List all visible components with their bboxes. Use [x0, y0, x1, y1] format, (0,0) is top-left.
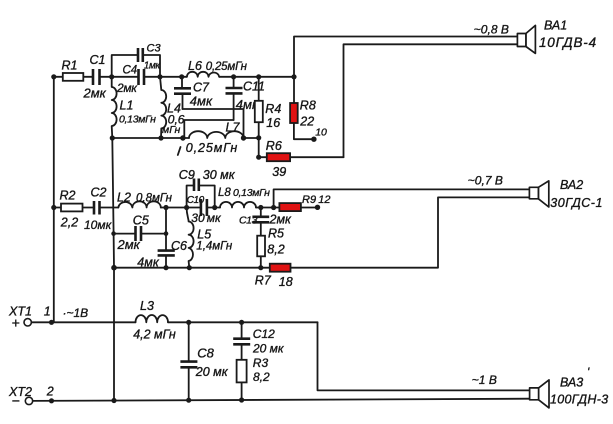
svg-text:L2: L2 [117, 190, 131, 204]
svg-text:C10: C10 [187, 195, 205, 206]
svg-text:C13: C13 [239, 214, 258, 226]
capacitor C6 [137, 239, 187, 270]
svg-text:C3: C3 [147, 43, 162, 55]
svg-text:R8: R8 [300, 98, 316, 112]
svg-text:R2: R2 [60, 188, 76, 202]
node R6 left [256, 155, 261, 160]
wire row1 bottom line [112, 137, 258, 139]
svg-text:R4: R4 [265, 102, 281, 116]
svg-text:C8: C8 [197, 345, 214, 360]
capacitor C4 [116, 65, 144, 95]
wire bottom bus [33, 399, 530, 401]
svg-text:18: 18 [279, 275, 293, 289]
node R8 top [291, 74, 296, 79]
node XT1 junction [49, 320, 54, 325]
svg-text:L1: L1 [120, 99, 134, 113]
svg-text:C5: C5 [133, 213, 149, 227]
svg-text:R9: R9 [302, 194, 316, 206]
svg-text:ВА2: ВА2 [560, 178, 583, 192]
capacitor C12 [233, 322, 285, 360]
node common bus [111, 398, 116, 403]
node L1 bottom [110, 135, 115, 140]
node row1 left [51, 74, 56, 79]
svg-text:39: 39 [272, 165, 286, 179]
capacitor C9 [179, 168, 236, 191]
svg-text:L5: L5 [197, 227, 211, 241]
terminal XT1 [8, 304, 88, 330]
inductor L6 [187, 59, 248, 77]
wire C7 to L7 right [183, 109, 244, 138]
capacitor C1 [83, 53, 107, 101]
svg-text:12: 12 [318, 194, 330, 206]
svg-text:20 мк: 20 мк [252, 341, 285, 355]
node L4 bottom [158, 135, 163, 140]
svg-text:1: 1 [44, 304, 51, 318]
svg-text:C11: C11 [243, 79, 265, 93]
svg-text:~1 В: ~1 В [472, 373, 497, 387]
speaker BA1 [517, 18, 596, 53]
svg-text:ВА3: ВА3 [560, 376, 583, 390]
node R4 top [256, 74, 261, 79]
svg-text:10мк: 10мк [84, 218, 113, 232]
wire row2 bottom line [114, 197, 529, 267]
capacitor C8 [180, 322, 228, 400]
node row2 bottom left [111, 265, 117, 271]
svg-text:4,2 мГн: 4,2 мГн [133, 328, 176, 342]
svg-text:C6: C6 [171, 239, 187, 253]
svg-text:C7: C7 [193, 80, 210, 94]
wire BA3 top [318, 322, 530, 390]
svg-text:+: + [12, 315, 20, 331]
svg-text:L3: L3 [140, 299, 154, 313]
svg-text:L8: L8 [218, 187, 231, 199]
inductor L8 [218, 187, 270, 208]
svg-text:1,4мГн: 1,4мГн [196, 241, 233, 253]
node C5 left [111, 231, 116, 236]
node C13 top [258, 205, 263, 210]
svg-text:~0,7 В: ~0,7 В [468, 174, 503, 188]
svg-text:·~1В: ·~1В [63, 306, 89, 320]
node L5 bottom [187, 265, 192, 270]
svg-text:30 мк: 30 мк [203, 168, 236, 182]
node C7 top [179, 74, 184, 79]
terminal XT2 [8, 385, 54, 409]
node C8 top [186, 320, 191, 325]
node L7 left [180, 135, 185, 140]
wire row2 main line [54, 207, 317, 209]
speaker BA3 [530, 365, 609, 408]
resistor R3 [237, 356, 270, 400]
svg-text:10: 10 [315, 127, 327, 139]
node C9 left [184, 205, 189, 210]
resistor R1 [62, 59, 84, 81]
svg-text:0,25мГн: 0,25мГн [186, 141, 238, 155]
svg-text:R1: R1 [62, 59, 78, 73]
svg-text:R5: R5 [268, 227, 284, 241]
svg-text:4мк: 4мк [190, 94, 213, 109]
capacitor C13 [239, 208, 292, 236]
svg-text:C1: C1 [90, 53, 106, 67]
svg-text:30: 30 [191, 211, 205, 225]
node XT2 junction [49, 398, 54, 403]
node C11 top [231, 74, 236, 79]
svg-text:8,2: 8,2 [267, 242, 284, 256]
capacitor C7 [174, 77, 213, 109]
wire C9 loop [187, 186, 215, 208]
inductor L1 [112, 77, 156, 138]
svg-text:0,13мГн: 0,13мГн [119, 114, 156, 126]
wire C11 to L7 left [184, 120, 233, 138]
resistor R6 [259, 139, 344, 179]
node A [109, 74, 114, 79]
svg-text:C4: C4 [123, 65, 138, 77]
svg-text:22: 22 [299, 115, 314, 129]
svg-text:0,13мГн: 0,13мГн [233, 187, 270, 199]
svg-text:8,2: 8,2 [253, 370, 270, 384]
svg-text:2мк: 2мк [116, 81, 138, 95]
wire common vertical [112, 138, 114, 401]
capacitor C3 [138, 43, 161, 72]
node L7 right [241, 135, 246, 140]
wire C5/C6 vertical [165, 208, 167, 268]
svg-text:2мк: 2мк [117, 237, 141, 252]
svg-text:0,25мГн: 0,25мГн [206, 61, 248, 73]
node R5 bottom [258, 265, 263, 270]
svg-text:0,8мГн: 0,8мГн [136, 192, 173, 204]
node R4 bottom-line [256, 135, 261, 140]
wire row3 main line [31, 321, 317, 323]
inductor L4 [160, 77, 185, 138]
node R3 bottom [239, 397, 244, 402]
svg-text:100ГДН-3: 100ГДН-3 [550, 392, 608, 406]
node C5 right [164, 231, 169, 236]
resistor R7 [255, 264, 293, 289]
wire row1 main line [54, 76, 294, 78]
wire to BA1 top [294, 37, 517, 77]
node B [157, 74, 162, 79]
node C12 top [239, 320, 244, 325]
svg-text:ВА1: ВА1 [544, 18, 567, 32]
svg-text:R6: R6 [266, 139, 282, 153]
node C9 right [212, 205, 217, 210]
wire left input vertical [53, 77, 55, 322]
inductor L5 [187, 208, 233, 268]
node row2 left [51, 205, 56, 210]
wire BA2 top [274, 189, 530, 207]
capacitor C11 [226, 77, 266, 120]
svg-text:16: 16 [266, 116, 280, 130]
svg-text:C12: C12 [253, 327, 275, 341]
inductor L3 [133, 299, 176, 342]
svg-text:2: 2 [46, 385, 54, 399]
svg-text:R3: R3 [253, 356, 269, 370]
svg-text:20 мк: 20 мк [195, 365, 229, 379]
node terminal 12 [315, 205, 320, 210]
svg-text:L7: L7 [226, 121, 241, 135]
node L2 right [163, 205, 168, 210]
inductor L2 [117, 190, 173, 207]
capacitor C5 [114, 213, 166, 252]
svg-text:2,2: 2,2 [60, 215, 78, 229]
node terminal 10 [311, 137, 316, 142]
node C8 bottom [186, 398, 191, 403]
resistor R4 [255, 77, 282, 157]
resistor R2 [60, 188, 83, 229]
speaker BA2 [529, 178, 603, 210]
resistor R9 [279, 194, 330, 211]
svg-text:2мк: 2мк [269, 212, 293, 226]
svg-text:−: − [12, 393, 20, 409]
capacitor C2 [84, 186, 113, 232]
wire C3 loop [112, 55, 160, 77]
svg-text:1мк: 1мк [144, 61, 162, 72]
inductor L7 [178, 121, 244, 156]
svg-text:L6: L6 [188, 59, 202, 73]
node C6 bottom [163, 265, 168, 270]
node BA2 tap [271, 205, 276, 210]
svg-text:2мк: 2мк [83, 86, 107, 101]
svg-text:~0,8 В: ~0,8 В [474, 23, 509, 37]
svg-text:30ГДС-1: 30ГДС-1 [550, 196, 603, 210]
svg-text:C9: C9 [179, 168, 195, 182]
svg-text:10ГДВ-4: 10ГДВ-4 [539, 35, 597, 50]
wire to BA1 bottom [344, 44, 518, 157]
resistor R8 [290, 77, 316, 139]
svg-text:R7: R7 [255, 273, 272, 287]
capacitor C10 [187, 195, 222, 225]
svg-text:C2: C2 [91, 186, 107, 200]
resistor R5 [257, 227, 285, 268]
svg-text:': ' [587, 365, 590, 379]
svg-text:мГн: мГн [162, 124, 180, 136]
svg-text:мк: мк [207, 211, 222, 225]
